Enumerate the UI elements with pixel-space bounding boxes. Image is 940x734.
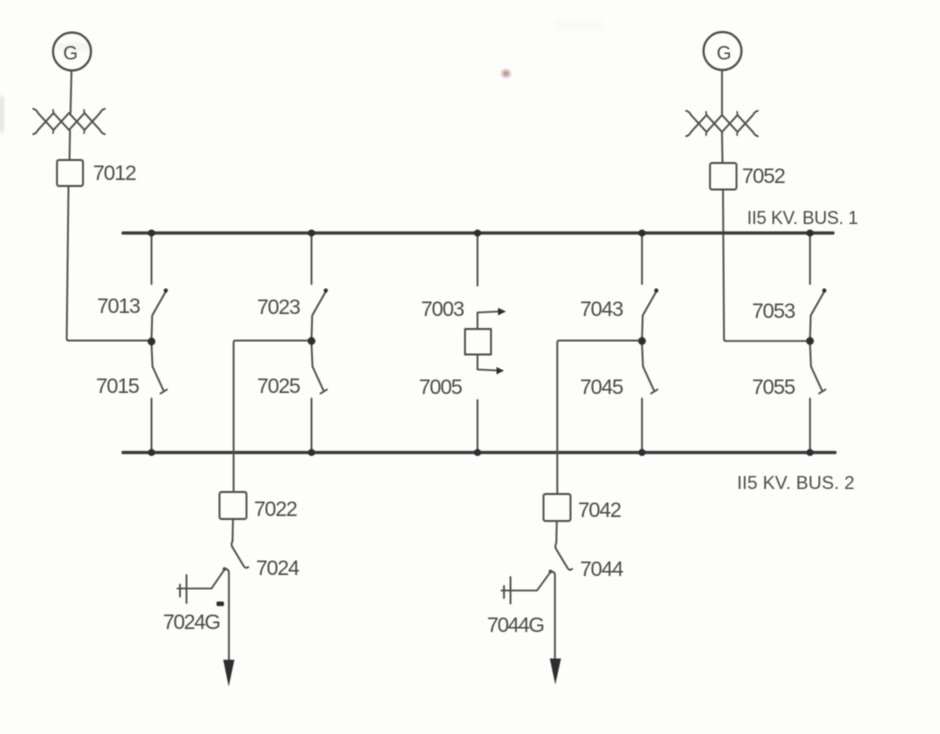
disconnect switch 7013 blade	[152, 292, 166, 339]
winding W1 vertex nubs	[53, 110, 85, 133]
disconnect switch 7053 blade	[810, 292, 824, 339]
breaker 7003 (drawout)	[465, 329, 491, 355]
svg-text:7044: 7044	[580, 558, 624, 581]
junction bus2 node 7005	[474, 449, 481, 456]
switch 7045 end tick	[651, 390, 658, 394]
load arrow feeder 1	[223, 660, 234, 687]
wire switch 7015 to bus2	[151, 399, 153, 452]
svg-text:7022: 7022	[254, 498, 297, 521]
drawout arrowhead bottom 7003	[497, 367, 505, 374]
wire 7022 to switch 7024	[232, 519, 235, 541]
wire node D to feeder 7042 (crosses bus 2)	[557, 341, 638, 494]
drawout arrowhead top 7003	[498, 308, 506, 316]
switch 7025 end tick	[321, 390, 328, 394]
junction bus1 node 7013	[148, 230, 155, 237]
svg-text:7024: 7024	[256, 557, 300, 580]
wire switch 7025 to bus2	[311, 399, 313, 452]
junction bus2 node 7045	[639, 449, 646, 456]
svg-text:7005: 7005	[419, 376, 462, 399]
svg-text:7042: 7042	[578, 499, 621, 522]
wire 7042 to switch 7044	[555, 521, 558, 543]
ground switch 7024G pivot	[223, 567, 227, 571]
junction bus1 node 7053	[807, 230, 814, 237]
load arrow feeder 2	[550, 659, 561, 685]
wire breaker 7003 to bus2	[477, 400, 479, 452]
wire switch 7044 to load arrow	[551, 571, 555, 659]
ground switch 7024G blade	[178, 570, 225, 589]
wire G1 to winding	[71, 71, 72, 114]
disconnect switch 7045 blade	[642, 345, 654, 391]
node B (7023/7025 mid)	[308, 337, 316, 345]
paper smudge top left	[55, 42, 95, 52]
junction bus2 node 7015	[148, 449, 155, 456]
drawout arrow bottom of 7003	[478, 355, 498, 371]
node D (7043/7045 mid)	[638, 337, 646, 345]
blade tip 7023	[324, 288, 328, 292]
drawout arrow top of 7003	[478, 312, 500, 330]
wire bus1 to switch 7053	[809, 234, 811, 284]
svg-text:7024G: 7024G	[163, 611, 220, 634]
wire switch 7055 to bus2	[809, 399, 811, 452]
wire node B to feeder 7022 (crosses bus 2)	[234, 341, 308, 492]
svg-text:7043: 7043	[580, 298, 623, 321]
svg-text:II5 KV. BUS. 2: II5 KV. BUS. 2	[737, 472, 855, 493]
blade tip 7013	[164, 288, 168, 292]
scanner edge artifact	[0, 96, 4, 132]
disconnect switch 7025 blade	[312, 345, 324, 391]
disconnect switch 7055 blade	[810, 345, 822, 391]
disconnect switch 7023 blade	[312, 292, 326, 339]
disconnect switch 7044 blade	[555, 543, 572, 570]
svg-text:7012: 7012	[93, 162, 136, 185]
generator G2 (right)	[704, 32, 742, 70]
breaker 7012	[57, 160, 83, 186]
junction bus2 node 7055	[807, 449, 814, 456]
wire bus1 to breaker 7003	[477, 234, 479, 286]
disconnect switch 7015 blade	[152, 345, 164, 391]
node A (7013/7015 mid)	[148, 338, 156, 346]
wire switch 7024 to load arrow	[225, 569, 229, 661]
junction bus2 node 7025	[308, 449, 315, 456]
svg-text:7044G: 7044G	[487, 614, 544, 637]
breaker 7022	[220, 492, 247, 519]
blade tip 7053	[822, 288, 826, 292]
wire 7052 to node E (crosses bus 1)	[723, 190, 806, 342]
ground switch 7044G pivot	[549, 570, 553, 574]
junction bus1 node 7003	[474, 230, 481, 237]
disconnect switch 7043 blade	[642, 292, 656, 339]
switch 7015 end tick	[161, 390, 168, 394]
ground switch 7044G blade	[502, 572, 551, 591]
svg-text:7003: 7003	[421, 298, 464, 321]
svg-text:7055: 7055	[752, 376, 795, 399]
winding W1 (left zigzag)	[33, 109, 105, 130]
wire bus1 to switch 7023	[311, 234, 313, 284]
svg-text:7053: 7053	[752, 300, 795, 323]
junction bus1 node 7043	[639, 230, 646, 237]
svg-text:7025: 7025	[257, 375, 300, 398]
wire winding to breaker 7012	[69, 131, 72, 161]
breaker 7042	[544, 494, 571, 521]
svg-text:G: G	[63, 44, 77, 65]
ink dash artifact near 7024G	[217, 602, 225, 607]
wire winding to breaker 7052	[721, 133, 724, 164]
paper smudge top middle	[556, 21, 602, 30]
generator G1 (left)	[53, 33, 91, 71]
svg-text:7023: 7023	[257, 296, 300, 319]
svg-text:7052: 7052	[742, 165, 785, 188]
bus 115 KV BUS.2	[123, 451, 835, 454]
winding W2 (right zigzag)	[686, 111, 758, 132]
junction bus1 node 7023	[308, 230, 315, 237]
red ink speck	[502, 70, 510, 77]
switch 7055 end tick	[819, 390, 826, 394]
breaker 7052	[710, 163, 737, 190]
svg-text:7013: 7013	[97, 295, 140, 318]
blade tip 7043	[654, 288, 658, 292]
svg-text:7015: 7015	[96, 375, 139, 398]
ground electrode 7024G	[186, 575, 188, 603]
ground electrode 7044G	[510, 577, 512, 604]
wire G2 to winding	[721, 70, 723, 114]
wire bus1 to switch 7043	[641, 234, 643, 284]
wire switch 7045 to bus2	[641, 399, 643, 452]
bus 115 KV BUS.1	[123, 231, 833, 234]
wire bus1 to switch 7013	[151, 234, 153, 284]
svg-text:7045: 7045	[580, 376, 623, 399]
disconnect switch 7024 blade	[232, 541, 249, 568]
node E (7053/7055 mid)	[806, 337, 814, 345]
winding W2 vertex nubs	[706, 112, 738, 135]
svg-text:II5 KV. BUS. 1: II5 KV. BUS. 1	[747, 208, 858, 228]
wire 7012 to node A	[67, 186, 148, 341]
svg-text:G: G	[717, 44, 731, 65]
